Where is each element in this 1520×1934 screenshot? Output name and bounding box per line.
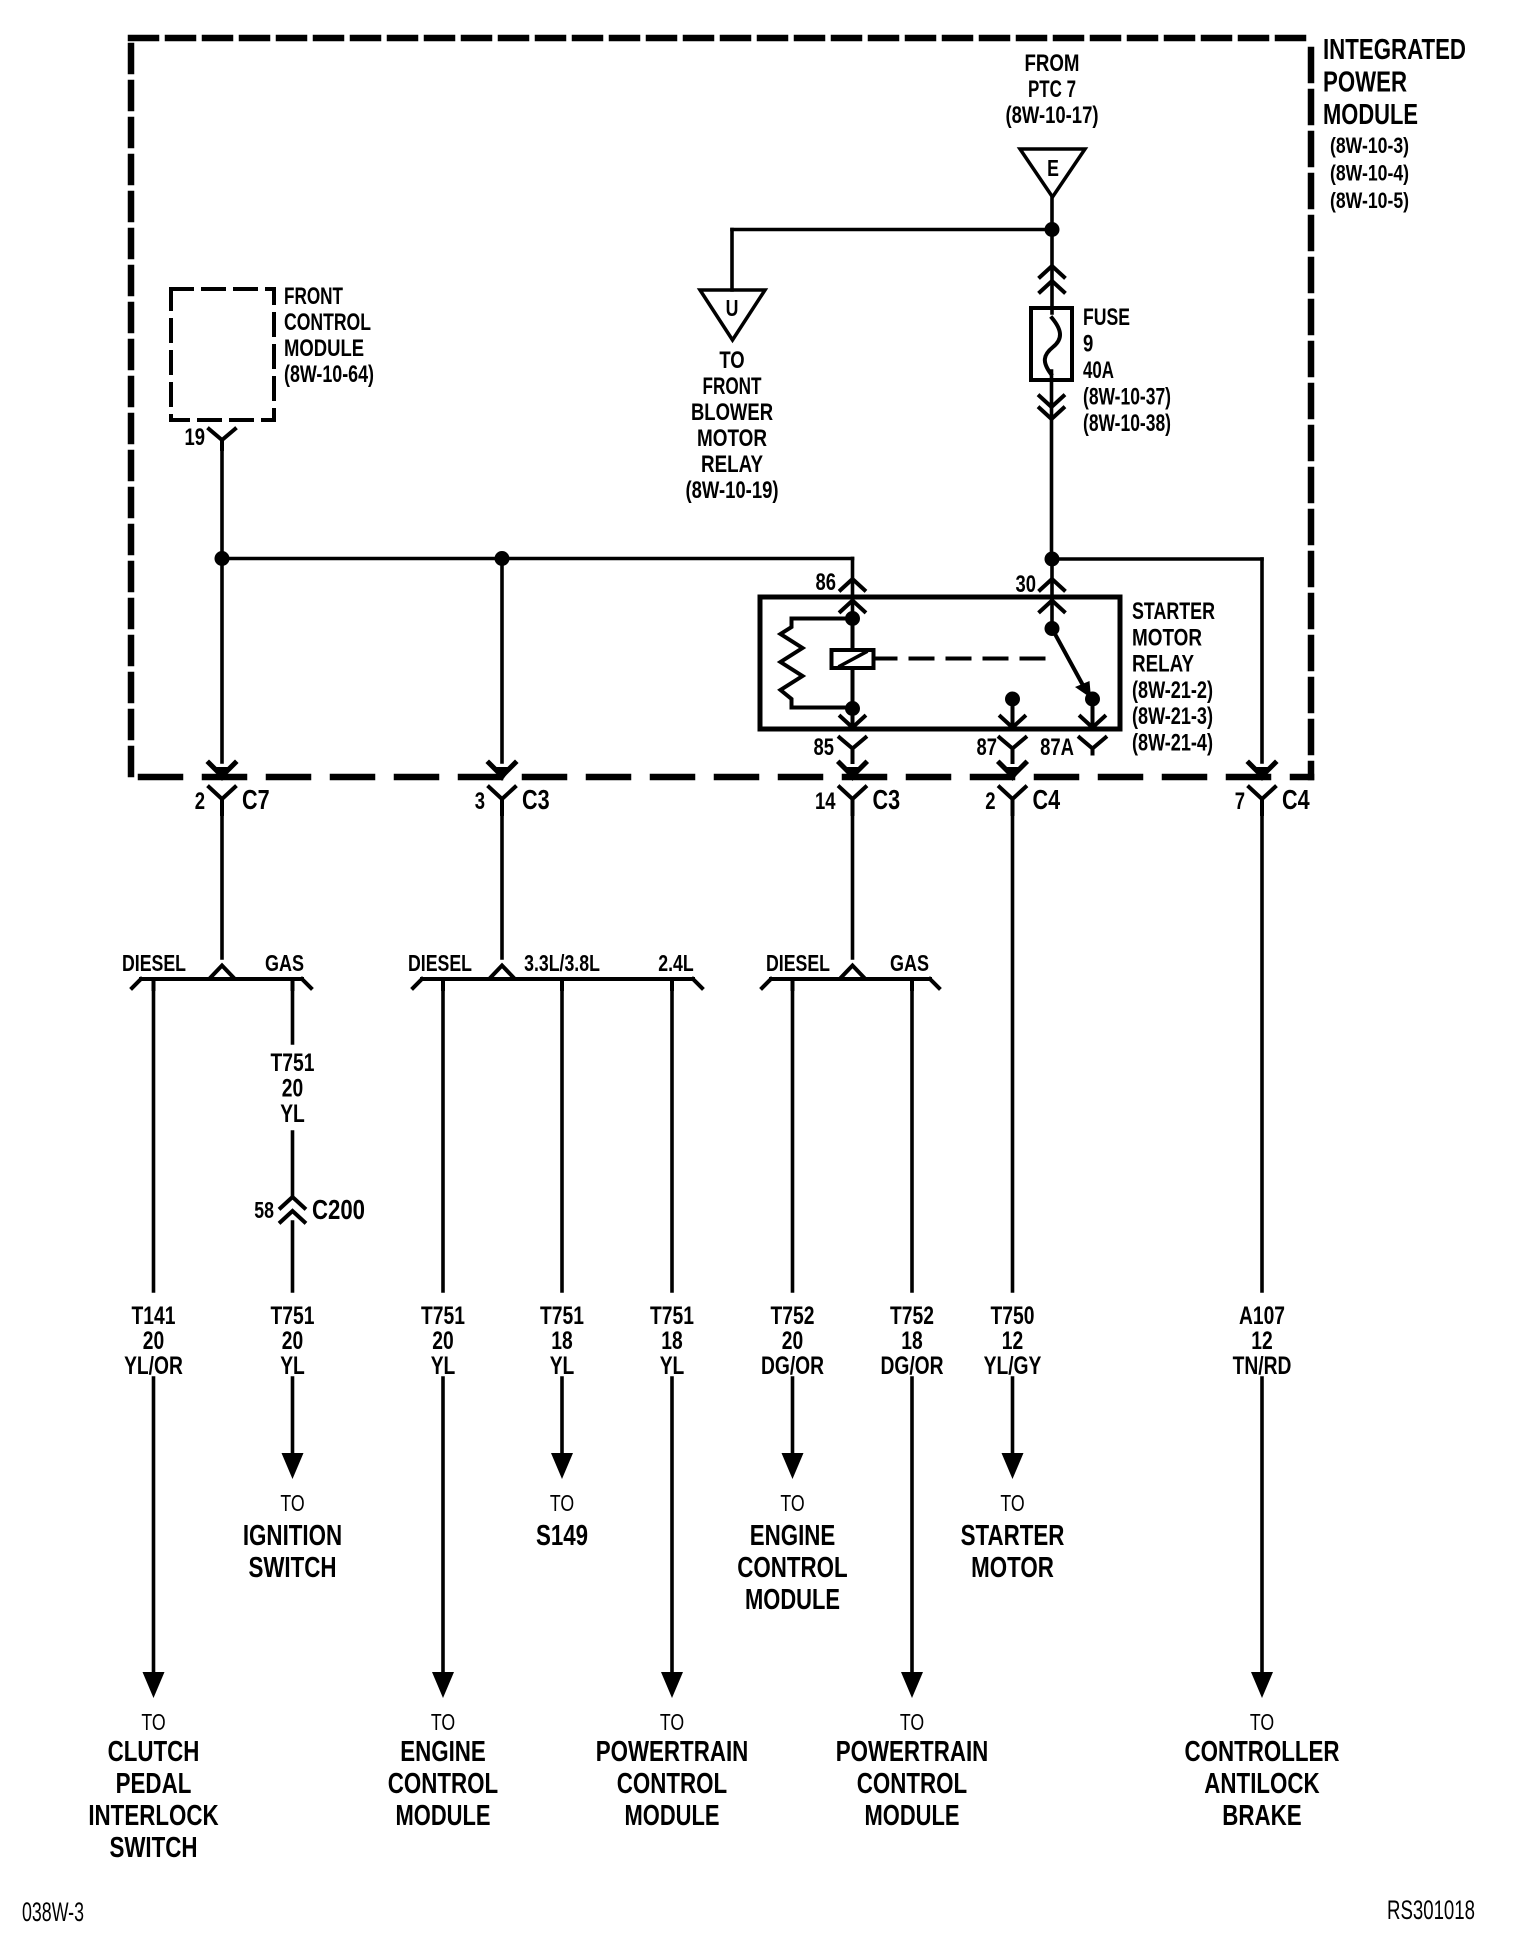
bus wire to relay pin 86 xyxy=(222,557,853,561)
svg-text:87: 87 xyxy=(977,734,998,761)
svg-text:(8W-10-4): (8W-10-4) xyxy=(1330,161,1409,186)
svg-text:12: 12 xyxy=(1251,1327,1272,1355)
svg-text:18: 18 xyxy=(901,1327,922,1355)
svg-text:POWERTRAIN: POWERTRAIN xyxy=(836,1736,989,1768)
relay common contact node xyxy=(1045,621,1060,636)
wire to POWERTRAIN CONTROL MODULE xyxy=(910,1378,914,1672)
svg-text:FROM: FROM xyxy=(1025,50,1080,77)
wire gas branch (C3-14) to label xyxy=(910,979,914,1291)
svg-text:CONTROL: CONTROL xyxy=(284,309,371,336)
svg-text:40A: 40A xyxy=(1083,357,1114,384)
wire to POWERTRAIN CONTROL MODULE xyxy=(670,1378,674,1672)
wire 2.4L branch to label xyxy=(670,979,674,1291)
wire FCM pin 19 to bus xyxy=(220,449,224,559)
junction node: E feed / blower relay branch xyxy=(1045,222,1060,237)
svg-text:PTC 7: PTC 7 xyxy=(1028,76,1076,103)
connector symbol C7 pin 2 xyxy=(209,787,235,810)
wire coil to pin 85 xyxy=(851,709,855,727)
connector symbol C4 pin 7 xyxy=(1249,787,1275,810)
wire C3-14 to diesel/gas split xyxy=(851,814,855,958)
fuse 9 40A xyxy=(1031,308,1072,380)
wire fuse 9 to relay pin 30 xyxy=(1050,371,1054,559)
svg-text:TO: TO xyxy=(141,1709,165,1735)
relay contact 87 node xyxy=(1005,692,1020,707)
svg-text:DIESEL: DIESEL xyxy=(122,950,186,976)
svg-text:MODULE: MODULE xyxy=(396,1800,491,1832)
wire bus to relay pin 86 coil xyxy=(851,559,855,619)
svg-text:TO: TO xyxy=(719,347,744,374)
svg-text:DG/OR: DG/OR xyxy=(761,1352,824,1380)
arrowhead to IGNITION SWITCH xyxy=(282,1453,304,1479)
wire C3-3 to engine split xyxy=(500,814,504,958)
svg-text:PEDAL: PEDAL xyxy=(116,1768,192,1800)
svg-text:MODULE: MODULE xyxy=(1323,99,1418,131)
wire coil symbol to pin 85 node xyxy=(851,668,855,709)
svg-text:YL/GY: YL/GY xyxy=(984,1352,1042,1380)
relay switch arm with arrowhead xyxy=(1052,629,1085,690)
svg-text:TO: TO xyxy=(1000,1490,1024,1516)
svg-text:20: 20 xyxy=(282,1327,303,1355)
svg-text:T141: T141 xyxy=(132,1302,176,1330)
wire to CLUTCH PEDAL INTERLOCK SWITCH xyxy=(152,1378,156,1672)
wire to ENGINE CONTROL MODULE xyxy=(791,1378,795,1455)
wire diesel branch (C3-3) to label xyxy=(441,979,445,1291)
wire 3.3L/3.8L branch to label xyxy=(560,979,564,1291)
double chevron up (wire marker) 2 xyxy=(1040,281,1064,292)
svg-text:A107: A107 xyxy=(1239,1302,1285,1330)
svg-text:87A: 87A xyxy=(1040,734,1074,761)
svg-text:BRAKE: BRAKE xyxy=(1222,1800,1301,1832)
double chevron down (wire marker) xyxy=(1040,396,1064,407)
svg-text:SWITCH: SWITCH xyxy=(248,1552,336,1584)
wire T751 to connector C200 xyxy=(291,1132,295,1197)
pin 87A terminal (inverted Y) xyxy=(1080,738,1106,754)
wire gas branch to T751 label xyxy=(291,979,295,1043)
svg-text:YL: YL xyxy=(431,1352,456,1380)
connector pin 19 (inverted Y) xyxy=(209,429,235,449)
stub below C7 pin 2 xyxy=(220,810,224,814)
power connector U (triangle) xyxy=(700,290,765,340)
wire coil top to coil symbol xyxy=(851,619,855,651)
arrowhead to S149 xyxy=(551,1453,573,1479)
wire to ENGINE CONTROL MODULE xyxy=(441,1378,445,1672)
junction: bus / C3-3 branch xyxy=(495,551,510,566)
stub below C4 pin 7 xyxy=(1260,810,1264,814)
chevron pin 30 outside xyxy=(1040,579,1064,590)
wire to IGNITION SWITCH xyxy=(291,1378,295,1455)
wire diesel branch to T141 label xyxy=(152,979,156,1291)
svg-text:YL: YL xyxy=(660,1352,685,1380)
chevron pin 30 inside xyxy=(1040,601,1064,612)
svg-text:30: 30 xyxy=(1016,571,1037,598)
svg-text:POWER: POWER xyxy=(1323,67,1407,99)
wire pin 85 to boundary xyxy=(851,758,855,763)
svg-text:(8W-10-5): (8W-10-5) xyxy=(1330,188,1409,213)
svg-text:DIESEL: DIESEL xyxy=(408,950,472,976)
svg-text:T752: T752 xyxy=(890,1302,934,1330)
svg-text:3: 3 xyxy=(475,788,485,815)
svg-text:S149: S149 xyxy=(536,1520,588,1552)
power connector E (triangle) xyxy=(1020,149,1085,197)
wire down to connector U xyxy=(730,230,734,291)
svg-text:CONTROL: CONTROL xyxy=(388,1768,498,1800)
chevron pin 87 inside xyxy=(1001,717,1025,728)
svg-text:C200: C200 xyxy=(312,1194,365,1225)
svg-text:T751: T751 xyxy=(271,1049,315,1077)
svg-text:TO: TO xyxy=(431,1709,455,1735)
chevron pin 86 inside xyxy=(841,601,865,612)
arrowhead to ENGINE CONTROL MODULE xyxy=(432,1672,454,1698)
junction: pin19 wire / bus xyxy=(215,551,230,566)
svg-text:CONTROL: CONTROL xyxy=(737,1552,847,1584)
wire down to connector C7 pin 2 xyxy=(220,559,224,763)
stub below C3 pin 14 xyxy=(851,810,855,814)
svg-text:(8W-21-3): (8W-21-3) xyxy=(1132,703,1213,730)
svg-text:(8W-10-64): (8W-10-64) xyxy=(284,361,374,388)
svg-text:T751: T751 xyxy=(271,1302,315,1330)
wire diesel branch (C3-14) to label xyxy=(791,979,795,1291)
svg-text:POWERTRAIN: POWERTRAIN xyxy=(596,1736,749,1768)
arrowhead to CLUTCH PEDAL INTERLOCK SWITCH xyxy=(143,1672,165,1698)
svg-text:YL: YL xyxy=(280,1352,305,1380)
junction: fuse feed / C4-7 branch xyxy=(1045,552,1060,567)
svg-text:ENGINE: ENGINE xyxy=(750,1520,836,1552)
svg-text:T752: T752 xyxy=(771,1302,815,1330)
svg-text:12: 12 xyxy=(1002,1327,1023,1355)
svg-text:T751: T751 xyxy=(650,1302,694,1330)
connector symbol C4 pin 2 xyxy=(1000,787,1026,810)
chevron pin 87A inside xyxy=(1081,717,1105,728)
arrow into boundary at C3 pin 3 xyxy=(489,763,515,776)
svg-text:TO: TO xyxy=(780,1490,804,1516)
svg-text:GAS: GAS xyxy=(890,950,929,976)
svg-text:TO: TO xyxy=(900,1709,924,1735)
chevron pin 85 inside xyxy=(841,717,865,728)
svg-text:(8W-10-3): (8W-10-3) xyxy=(1330,133,1409,158)
svg-text:MODULE: MODULE xyxy=(284,335,364,362)
svg-text:MODULE: MODULE xyxy=(745,1584,840,1616)
svg-text:2: 2 xyxy=(195,788,205,815)
arrow into boundary at C3 pin 14 xyxy=(840,763,866,776)
wire to front blower motor relay branch xyxy=(732,228,1052,232)
svg-text:RELAY: RELAY xyxy=(1132,651,1194,678)
svg-text:U: U xyxy=(726,295,739,321)
svg-text:TO: TO xyxy=(660,1709,684,1735)
svg-text:7: 7 xyxy=(1235,788,1245,815)
svg-text:18: 18 xyxy=(551,1327,572,1355)
svg-text:RS301018: RS301018 xyxy=(1387,1895,1475,1925)
front control module (dashed box) xyxy=(171,289,274,420)
svg-text:DIESEL: DIESEL xyxy=(766,950,830,976)
svg-text:MOTOR: MOTOR xyxy=(1132,624,1202,651)
relay coil (resistor zigzag) xyxy=(781,619,853,708)
svg-text:3.3L/3.8L: 3.3L/3.8L xyxy=(524,950,600,976)
connector symbol C3 pin 14 xyxy=(840,787,866,810)
svg-text:T750: T750 xyxy=(991,1302,1035,1330)
svg-text:T751: T751 xyxy=(540,1302,584,1330)
svg-text:GAS: GAS xyxy=(265,950,304,976)
split diesel/3.3L/2.4L (C3-3) xyxy=(491,966,513,978)
svg-text:(8W-21-4): (8W-21-4) xyxy=(1132,730,1213,757)
svg-text:INTEGRATED: INTEGRATED xyxy=(1323,34,1466,66)
arrowhead to ENGINE CONTROL MODULE xyxy=(782,1453,804,1479)
wire C4-2 to starter motor label xyxy=(1011,814,1015,1291)
arrowhead to CONTROLLER ANTILOCK BRAKE xyxy=(1251,1672,1273,1698)
wire contact 87 to pin xyxy=(1011,699,1015,726)
wire pin 30 into relay xyxy=(1050,559,1054,628)
svg-text:YL: YL xyxy=(280,1100,305,1128)
svg-text:(8W-10-37): (8W-10-37) xyxy=(1083,384,1171,411)
wire C7-2 to diesel/gas split xyxy=(220,814,224,958)
svg-text:FUSE: FUSE xyxy=(1083,304,1130,331)
svg-text:18: 18 xyxy=(661,1327,682,1355)
svg-text:(8W-10-38): (8W-10-38) xyxy=(1083,410,1171,437)
pin 85 terminal (inverted Y) xyxy=(840,738,866,758)
svg-text:C3: C3 xyxy=(873,784,901,815)
wire to STARTER MOTOR xyxy=(1011,1378,1015,1455)
svg-text:20: 20 xyxy=(282,1075,303,1103)
svg-text:FRONT: FRONT xyxy=(284,283,343,310)
wire down to connector C4 pin 7 xyxy=(1260,559,1264,762)
wire pin 87 to boundary xyxy=(1011,758,1015,763)
svg-text:MODULE: MODULE xyxy=(865,1800,960,1832)
arrowhead to POWERTRAIN CONTROL MODULE xyxy=(661,1672,683,1698)
svg-text:SWITCH: SWITCH xyxy=(109,1832,197,1864)
svg-text:C4: C4 xyxy=(1282,784,1310,815)
arrow into boundary at C4 pin 7 xyxy=(1249,763,1275,776)
double chevron down (wire marker) 2 xyxy=(1040,408,1064,419)
svg-text:MOTOR: MOTOR xyxy=(697,425,767,452)
stub below C3 pin 3 xyxy=(500,810,504,814)
double chevron up (wire marker) xyxy=(1040,266,1064,277)
svg-text:C3: C3 xyxy=(522,784,550,815)
svg-text:20: 20 xyxy=(143,1327,164,1355)
split diesel/gas (C3-14) xyxy=(842,966,864,978)
svg-text:FRONT: FRONT xyxy=(703,373,762,400)
svg-text:20: 20 xyxy=(782,1327,803,1355)
svg-text:ENGINE: ENGINE xyxy=(400,1736,486,1768)
svg-text:E: E xyxy=(1047,155,1059,181)
svg-text:CLUTCH: CLUTCH xyxy=(108,1736,200,1768)
svg-text:CONTROLLER: CONTROLLER xyxy=(1184,1736,1339,1768)
relay coil bottom node xyxy=(845,701,860,716)
svg-text:STARTER: STARTER xyxy=(1132,598,1215,625)
svg-text:14: 14 xyxy=(815,788,836,815)
svg-text:9: 9 xyxy=(1083,331,1093,358)
chevron C200 upper xyxy=(281,1197,305,1208)
svg-text:BLOWER: BLOWER xyxy=(691,399,773,426)
svg-text:C7: C7 xyxy=(242,784,270,815)
svg-text:MOTOR: MOTOR xyxy=(971,1552,1054,1584)
arrowhead to STARTER MOTOR xyxy=(1002,1453,1024,1479)
wire to S149 xyxy=(560,1378,564,1455)
svg-text:(8W-10-19): (8W-10-19) xyxy=(685,477,778,504)
svg-text:MODULE: MODULE xyxy=(625,1800,720,1832)
svg-text:T751: T751 xyxy=(421,1302,465,1330)
svg-text:19: 19 xyxy=(185,424,206,451)
relay actuation dashed link xyxy=(874,657,1059,661)
svg-text:RELAY: RELAY xyxy=(701,451,763,478)
connector symbol C3 pin 3 xyxy=(489,787,515,810)
svg-text:IGNITION: IGNITION xyxy=(243,1520,342,1552)
svg-text:58: 58 xyxy=(254,1197,274,1223)
svg-text:YL/OR: YL/OR xyxy=(124,1352,183,1380)
bus wire to connector C4 pin 7 xyxy=(1052,557,1262,561)
wire from connector E down to fuse 9 xyxy=(1050,197,1054,313)
arrowhead to POWERTRAIN CONTROL MODULE xyxy=(901,1672,923,1698)
svg-text:ANTILOCK: ANTILOCK xyxy=(1204,1768,1319,1800)
relay contact 87A node xyxy=(1085,692,1100,707)
svg-text:(8W-21-2): (8W-21-2) xyxy=(1132,677,1213,704)
arrow into boundary at C7 pin 2 xyxy=(209,763,235,776)
integrated power module boundary (dashed box) xyxy=(131,35,1311,42)
wire C4-7 to controller antilock brake label xyxy=(1260,814,1264,1291)
wire C200 to label xyxy=(291,1222,295,1291)
svg-text:DG/OR: DG/OR xyxy=(880,1352,943,1380)
stub below C4 pin 2 xyxy=(1011,810,1015,814)
starter motor relay (box) xyxy=(760,597,1120,729)
arrow into boundary at C4 pin 2 xyxy=(1000,763,1026,776)
svg-text:CONTROL: CONTROL xyxy=(617,1768,727,1800)
relay coil top node xyxy=(845,611,860,626)
svg-text:YL: YL xyxy=(550,1352,575,1380)
svg-text:(8W-10-17): (8W-10-17) xyxy=(1006,102,1099,129)
svg-text:85: 85 xyxy=(814,734,835,761)
wire to CONTROLLER ANTILOCK BRAKE xyxy=(1260,1378,1264,1672)
chevron C200 lower xyxy=(281,1211,305,1222)
chevron pin 86 outside xyxy=(841,579,865,590)
svg-text:20: 20 xyxy=(432,1327,453,1355)
split diesel/gas (C7-2) xyxy=(211,966,233,978)
svg-text:TO: TO xyxy=(1250,1709,1274,1735)
svg-text:INTERLOCK: INTERLOCK xyxy=(88,1800,218,1832)
svg-text:TO: TO xyxy=(550,1490,574,1516)
pin 87 terminal (inverted Y) xyxy=(1000,738,1026,758)
svg-text:STARTER: STARTER xyxy=(961,1520,1065,1552)
svg-text:2.4L: 2.4L xyxy=(658,950,693,976)
svg-text:86: 86 xyxy=(816,569,837,596)
svg-text:2: 2 xyxy=(985,788,995,815)
svg-text:CONTROL: CONTROL xyxy=(857,1768,967,1800)
svg-text:TN/RD: TN/RD xyxy=(1233,1352,1292,1380)
wire down to connector C3 pin 3 xyxy=(500,559,504,763)
svg-text:038W-3: 038W-3 xyxy=(22,1897,84,1927)
wire contact 87A to pin xyxy=(1091,699,1095,726)
svg-text:TO: TO xyxy=(280,1490,304,1516)
svg-text:C4: C4 xyxy=(1033,784,1061,815)
